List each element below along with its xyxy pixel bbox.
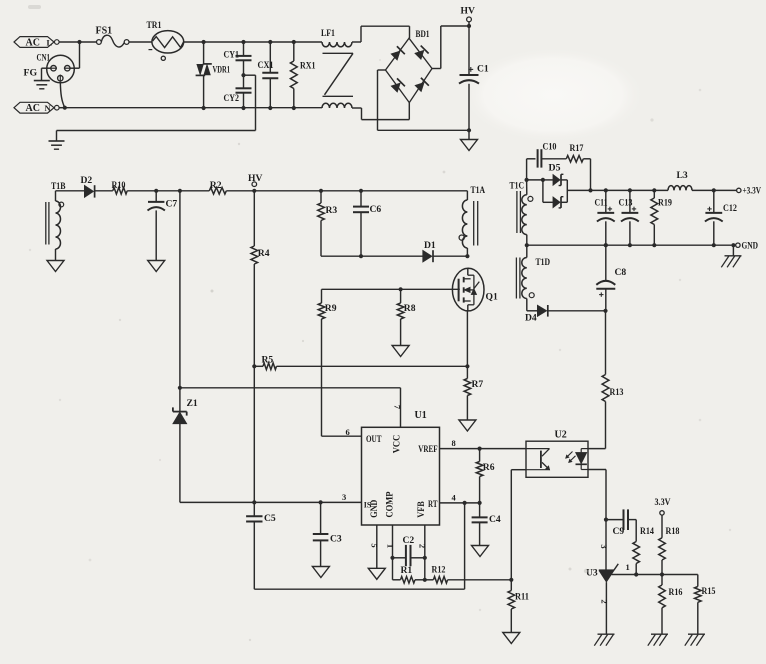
wire top line CX1 to RX1 <box>270 41 294 43</box>
wire gate line <box>322 288 460 290</box>
ground below C1 <box>461 130 478 150</box>
wire rail HV to R3 <box>254 190 321 192</box>
node RX1 top <box>292 40 296 44</box>
ground below C3 <box>312 567 329 578</box>
node CY2 bottom <box>241 106 245 110</box>
resistor R13 <box>602 311 624 449</box>
wire U2 LED cathode down <box>588 470 606 520</box>
svg-text:GND: GND <box>369 499 379 517</box>
svg-text:+3.3V: +3.3V <box>743 186 762 196</box>
wire R4 line continues to IS node <box>253 366 255 502</box>
wire junction down to CN1 pin <box>70 42 79 68</box>
wire bridge - output to ground rail <box>378 70 470 130</box>
U1 label RT <box>428 499 438 509</box>
svg-text:C7: C7 <box>166 199 178 210</box>
svg-text:1: 1 <box>385 544 395 548</box>
wire rail to R2 <box>180 190 209 192</box>
snubber C10 <box>527 142 567 180</box>
svg-text:R16: R16 <box>669 587 683 598</box>
node C6 top <box>359 189 363 193</box>
wire pin2 down <box>424 558 426 580</box>
capacitor C3 <box>313 502 342 566</box>
svg-text:C4: C4 <box>489 514 501 525</box>
shunt regulator U3 <box>586 564 618 582</box>
wire R5 line <box>254 365 467 367</box>
U1 label OUT <box>366 434 382 444</box>
U1 label VREF <box>418 444 438 454</box>
wire COMP pin 1 <box>385 525 395 558</box>
thermistor TR1 <box>147 20 184 60</box>
bridge rectifier BD1 <box>386 29 433 103</box>
wire rail C6 to T1A <box>361 190 467 192</box>
ground below R8 <box>392 346 409 357</box>
wire GND pin 5 <box>369 525 379 568</box>
svg-text:R10: R10 <box>112 180 126 191</box>
snubber R17 <box>566 143 583 162</box>
wire D1 to T1A bottom <box>433 255 467 257</box>
resistor R15 <box>695 575 716 634</box>
svg-text:U2: U2 <box>555 430 567 441</box>
wire rail R3 to C6 <box>321 190 361 192</box>
optocoupler U2 box <box>526 430 588 478</box>
svg-text:VCC: VCC <box>392 435 402 454</box>
mosfet Q1 <box>452 268 498 311</box>
svg-text:N: N <box>45 103 52 113</box>
connector tag AC line (L) <box>14 37 54 49</box>
wire R10 to C7 node <box>127 190 156 192</box>
node C3 top <box>319 500 323 504</box>
node R1/R12 <box>423 578 427 582</box>
svg-text:Z1: Z1 <box>187 398 198 409</box>
wire node to R12 <box>425 579 434 581</box>
svg-text:R7: R7 <box>472 379 484 390</box>
pin 3 label <box>342 492 346 502</box>
node Z1 top <box>178 386 182 390</box>
wire output line <box>591 189 669 191</box>
svg-text:BD1: BD1 <box>416 29 430 40</box>
wire secondary ground rail <box>527 244 732 246</box>
node junction AC L / CN1 <box>77 40 81 44</box>
wire top line CY1 to CX1 <box>244 41 271 43</box>
R4 vertical from HV node <box>253 191 255 246</box>
ground below C7 <box>148 261 165 272</box>
ground below U1 pin5 <box>368 568 385 579</box>
wire Q1 source down <box>466 311 468 366</box>
svg-text:R6: R6 <box>483 462 495 473</box>
svg-text:CY2: CY2 <box>224 93 240 104</box>
resistor R7 <box>464 366 483 420</box>
wire U3 ref line <box>612 562 698 574</box>
transformer winding T1B <box>46 181 66 261</box>
svg-text:RX1: RX1 <box>300 61 316 72</box>
svg-text:C9: C9 <box>613 526 625 537</box>
svg-text:2: 2 <box>599 599 609 603</box>
ground below R7 <box>459 420 476 431</box>
ground slash at GND output <box>721 245 741 267</box>
svg-text:R8: R8 <box>404 303 416 314</box>
node VCC feed tap <box>178 189 182 193</box>
node pin4 riser <box>463 501 467 505</box>
node rail GND tap <box>731 243 735 247</box>
capacitor C11 <box>595 190 615 245</box>
svg-text:U1: U1 <box>415 410 427 421</box>
wire C5 bottom to pin4 riser <box>254 503 464 589</box>
capacitor CX1 <box>258 42 279 108</box>
node CY1/CY2 midpoint <box>241 73 245 77</box>
svg-text:D1: D1 <box>424 240 436 251</box>
node D4/C8/R13 <box>603 309 607 313</box>
ground earth below AC <box>49 141 65 149</box>
U2 phototransistor <box>526 449 550 470</box>
resistor R9 <box>318 289 337 436</box>
node T1A bottom junction <box>465 254 469 258</box>
node CY1 top <box>241 40 245 44</box>
terminal 3.3V sense <box>655 497 671 515</box>
node T1C bottom rail <box>525 243 529 247</box>
node pin2/C2 <box>423 556 427 560</box>
svg-text:R18: R18 <box>666 526 680 537</box>
node junction AC N <box>63 106 67 110</box>
terminal +3.3V <box>737 186 762 196</box>
capacitor C2 <box>393 535 425 566</box>
svg-text:2: 2 <box>417 544 427 548</box>
node rail R19 <box>652 243 656 247</box>
svg-text:U3: U3 <box>586 568 598 579</box>
resistor R4 <box>251 246 270 264</box>
svg-text:1: 1 <box>626 562 630 572</box>
node HV terminal <box>461 6 475 22</box>
svg-text:OUT: OUT <box>366 434 382 444</box>
resistor R6 <box>476 449 494 503</box>
svg-text:C12: C12 <box>723 203 737 214</box>
svg-text:L3: L3 <box>677 170 688 181</box>
resistor R16 <box>659 575 683 634</box>
wire LF1 bottom to bridge AC2 <box>362 103 410 120</box>
svg-text:VFB: VFB <box>416 501 426 518</box>
svg-text:D4: D4 <box>525 313 537 324</box>
wire AC N line <box>59 107 322 109</box>
svg-text:Q1: Q1 <box>486 292 498 303</box>
transformer winding T1A <box>459 185 485 256</box>
ground below C4 <box>472 546 489 557</box>
transformer winding T1D <box>516 245 550 311</box>
svg-text:C2: C2 <box>403 535 415 546</box>
pin 7 label <box>393 405 403 410</box>
U1 label IS <box>364 499 372 509</box>
svg-text:C1: C1 <box>477 64 489 75</box>
svg-text:C13: C13 <box>619 197 633 208</box>
resistor R12 <box>432 565 448 584</box>
capacitor CY1 <box>224 42 252 75</box>
svg-text:HV: HV <box>461 6 475 17</box>
node VDR1 bottom <box>202 106 206 110</box>
wire TR1 to VDR1 node <box>183 41 204 43</box>
svg-text:CY1: CY1 <box>224 50 240 61</box>
svg-text:HV: HV <box>248 173 262 184</box>
svg-text:VDR1: VDR1 <box>213 65 231 76</box>
node pin1/C2 <box>390 556 394 560</box>
wire VCC feed horizontal <box>180 387 401 389</box>
ground slash below R16 <box>648 634 668 646</box>
wire L3 to +3.3V <box>692 189 737 191</box>
capacitor C13 <box>619 190 639 245</box>
wire T1B to D2 <box>56 190 85 192</box>
capacitor CY2 <box>224 75 252 108</box>
svg-text:D5: D5 <box>549 163 561 174</box>
op-amp U1 controller box <box>362 410 440 525</box>
ground slash below U3 <box>594 634 614 646</box>
svg-text:3: 3 <box>342 492 346 502</box>
resistor R18 <box>659 515 680 574</box>
node CX1 bottom <box>268 106 272 110</box>
capacitor C7 <box>148 191 178 261</box>
wire VCC pin drop <box>400 388 402 428</box>
wire VCC feed vertical <box>179 191 181 388</box>
node VDR1 top <box>202 40 206 44</box>
fuse FS1 <box>96 26 130 48</box>
node R6 bottom / C4 <box>478 501 482 505</box>
U1 label VFB <box>416 501 426 518</box>
svg-text:VREF: VREF <box>418 444 438 454</box>
svg-text:R12: R12 <box>432 565 446 576</box>
svg-text:C5: C5 <box>264 513 276 524</box>
resistor R3 <box>318 191 338 256</box>
wire top line VDR to CY1 <box>204 41 244 43</box>
svg-text:R15: R15 <box>702 586 716 597</box>
node C1 bottom junction <box>467 128 471 132</box>
wire LF1 top to bridge AC1 <box>361 26 410 42</box>
node HV primary <box>248 173 262 193</box>
wire IS line <box>180 501 362 503</box>
zener Z1 <box>173 388 198 503</box>
svg-text:CN1: CN1 <box>37 53 51 64</box>
wire OUT pin 6 <box>322 427 362 437</box>
resistor R8 <box>397 289 415 345</box>
resistor R10 <box>112 180 128 194</box>
node R8 top <box>399 287 403 291</box>
node R12/R11/opto emitter <box>509 578 513 582</box>
svg-text:R13: R13 <box>610 387 624 398</box>
ground FG earth <box>34 81 50 89</box>
node CX1 top <box>268 40 272 44</box>
node R18/ref <box>660 572 664 576</box>
capacitor C6 <box>353 191 381 256</box>
svg-text:R5: R5 <box>262 355 274 366</box>
U2 LED <box>576 449 589 470</box>
dual schottky D5 <box>527 163 591 208</box>
diode D4 <box>525 305 606 324</box>
svg-text:R4: R4 <box>258 248 270 259</box>
svg-text:R9: R9 <box>325 303 337 314</box>
node R17/output <box>588 188 592 192</box>
capacitor C12 <box>705 190 737 245</box>
node rail C11 <box>604 243 608 247</box>
resistor R2 <box>209 180 226 194</box>
wire RT pin 4 <box>440 493 480 503</box>
resistor R5 <box>262 355 277 370</box>
resistor R11 <box>508 580 529 633</box>
node VREF/R6 <box>478 447 482 451</box>
svg-text:6: 6 <box>346 427 350 437</box>
label FG <box>24 68 38 79</box>
resistor R1 <box>401 565 416 583</box>
inductor L3 <box>668 170 692 190</box>
wire R12 to opto node <box>448 579 512 581</box>
U1 label COMP <box>385 491 395 517</box>
wire R2 to HV node <box>226 190 254 192</box>
transformer winding T1C <box>510 180 533 245</box>
svg-text:C3: C3 <box>330 534 342 545</box>
wire bridge + output to HV rail <box>432 26 469 69</box>
node R3 top <box>319 189 323 193</box>
node C12 top <box>712 188 716 192</box>
svg-text:AC: AC <box>26 38 40 49</box>
wire HV terminal to rail <box>468 22 470 26</box>
wire FS1 to TR1 <box>129 41 152 43</box>
svg-text:COMP: COMP <box>385 491 395 517</box>
diode D2 <box>81 175 95 198</box>
node C11 top <box>604 188 608 192</box>
node R19 top <box>652 188 656 192</box>
node R4/R5 junction <box>252 364 256 368</box>
node RX1 bottom <box>292 106 296 110</box>
connector CN1 <box>37 53 75 83</box>
pin circle on AC N tag <box>55 105 60 110</box>
svg-text:R2: R2 <box>210 180 222 191</box>
node C9 tap <box>604 518 608 522</box>
node T1C top <box>525 178 529 182</box>
wire D1 anode line <box>321 255 423 257</box>
svg-text:T1D: T1D <box>536 257 551 268</box>
wire C7 node to VCC-feed node <box>156 190 180 192</box>
svg-text:RT: RT <box>428 499 438 509</box>
wire VREF pin 8 <box>440 438 527 448</box>
common-mode choke LF1 <box>321 28 362 108</box>
wire CN1 N pin to AC N line <box>60 82 65 108</box>
connector tag AC neutral (N) <box>14 102 54 114</box>
svg-text:L: L <box>47 38 53 48</box>
node C5 top / IS line junction <box>252 500 256 504</box>
wire R4 to R5 node <box>253 264 255 366</box>
wire opto emitter riser <box>511 470 526 580</box>
svg-text:T1A: T1A <box>471 185 486 196</box>
resistor R14 <box>633 520 654 575</box>
wire U3 anode down <box>599 582 609 634</box>
svg-text:3.3V: 3.3V <box>655 497 671 507</box>
wire R17 to output node <box>583 159 590 191</box>
svg-text:TR1: TR1 <box>147 20 162 31</box>
wire D2 to R10 <box>95 190 113 192</box>
svg-text:LF1: LF1 <box>321 28 335 39</box>
node C6 bottom <box>359 254 363 258</box>
resistor R19 <box>651 190 672 245</box>
svg-text:R19: R19 <box>658 197 672 208</box>
capacitor C1 <box>459 26 489 130</box>
wire earth branch from CY midpoint <box>57 75 256 140</box>
U1 label GND <box>369 499 379 517</box>
varistor VDR1 <box>196 42 231 108</box>
svg-text:C8: C8 <box>615 267 627 278</box>
capacitor C8 <box>596 245 626 311</box>
capacitor C5 <box>246 502 276 589</box>
svg-text:GND: GND <box>742 241 759 251</box>
svg-text:8: 8 <box>452 438 456 448</box>
svg-text:R3: R3 <box>326 205 338 216</box>
wire R13 to U2 LED anode <box>588 448 606 450</box>
wire CN1 FG pin <box>42 68 51 80</box>
wire FB pin 2 <box>417 525 427 558</box>
wire to U3 cathode <box>599 520 609 571</box>
capacitor C9 <box>606 509 636 536</box>
node rail C12 <box>712 243 716 247</box>
svg-text:C10: C10 <box>543 142 557 153</box>
wire top line RX1 to LF1 <box>294 41 322 43</box>
node R14/ref <box>634 572 638 576</box>
svg-text:D2: D2 <box>81 175 93 186</box>
node rail C13 <box>628 243 632 247</box>
svg-text:C6: C6 <box>370 204 382 215</box>
capacitor C4 <box>472 503 501 546</box>
ground slash below R15 <box>685 634 705 646</box>
wire AC L to junction <box>59 41 96 43</box>
svg-text:R11: R11 <box>515 592 529 603</box>
node HV rail junction <box>467 24 471 28</box>
svg-text:CX1: CX1 <box>258 60 274 71</box>
node C13 top <box>628 188 632 192</box>
terminal GND <box>731 241 758 251</box>
svg-text:R17: R17 <box>570 143 584 154</box>
svg-text:R1: R1 <box>401 565 413 576</box>
wire R1 to node <box>415 579 425 581</box>
svg-text:5: 5 <box>369 543 379 547</box>
ground below T1B <box>47 261 64 272</box>
node C7 top <box>154 189 158 193</box>
svg-text:C11: C11 <box>595 197 608 208</box>
pin circle on AC L tag <box>55 40 60 45</box>
svg-text:R14: R14 <box>640 526 654 537</box>
node Q1 source / R5 <box>465 364 469 368</box>
resistor RX1 <box>290 42 315 108</box>
wire pin1 down to R1 <box>393 558 401 580</box>
svg-text:3: 3 <box>599 544 609 548</box>
svg-text:AC: AC <box>26 103 40 114</box>
svg-text:T1C: T1C <box>510 181 525 192</box>
U1 label VCC <box>392 435 402 454</box>
svg-text:FS1: FS1 <box>96 26 113 37</box>
svg-text:FG: FG <box>24 68 38 79</box>
U2 light arrows <box>566 452 576 463</box>
ground below R11 <box>503 633 520 644</box>
diode D1 <box>423 240 436 262</box>
node C8 rail tap <box>604 243 608 247</box>
